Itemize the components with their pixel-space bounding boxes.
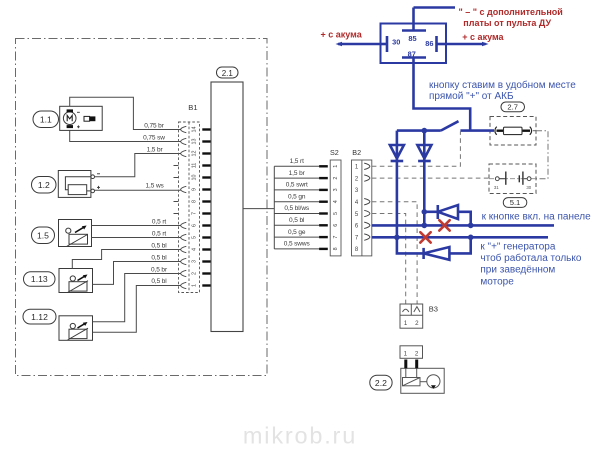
svg-text:1: 1 (333, 165, 339, 168)
svg-text:8: 8 (333, 247, 339, 250)
svg-text:85: 85 (408, 34, 416, 43)
svg-text:2.2: 2.2 (375, 378, 387, 388)
svg-text:+ с акума: + с акума (462, 32, 504, 42)
svg-text:0,5 bl: 0,5 bl (151, 278, 167, 285)
svg-text:7: 7 (192, 212, 198, 215)
svg-text:1: 1 (404, 320, 408, 327)
svg-text:платы от пульта ДУ: платы от пульта ДУ (463, 18, 551, 28)
svg-text:0,75 br: 0,75 br (144, 122, 164, 129)
svg-text:B3: B3 (429, 305, 438, 314)
svg-text:при заведённом: при заведённом (480, 265, 555, 276)
svg-text:0,5 ge: 0,5 ge (288, 229, 306, 236)
svg-text:2: 2 (192, 272, 198, 275)
svg-text:0,5 swws: 0,5 swws (284, 241, 311, 248)
svg-text:7: 7 (333, 236, 339, 239)
svg-text:2: 2 (333, 177, 339, 180)
svg-text:1: 1 (192, 284, 198, 287)
svg-text:1.12: 1.12 (31, 312, 48, 322)
svg-text:7: 7 (355, 235, 359, 241)
svg-text:87: 87 (408, 50, 416, 59)
svg-text:2.1: 2.1 (222, 69, 234, 78)
svg-text:6: 6 (192, 224, 198, 227)
svg-text:3: 3 (192, 260, 198, 263)
svg-text:B1: B1 (188, 103, 197, 112)
svg-text:0,5 rt: 0,5 rt (152, 219, 167, 226)
svg-text:1: 1 (355, 165, 359, 171)
svg-text:6: 6 (355, 224, 359, 230)
svg-text:31: 31 (494, 185, 499, 190)
svg-text:1.13: 1.13 (31, 274, 48, 284)
svg-text:86: 86 (425, 39, 433, 48)
svg-text:2: 2 (415, 350, 419, 357)
svg-text:прямой "+" от АКБ: прямой "+" от АКБ (429, 91, 514, 102)
svg-text:2.7: 2.7 (507, 103, 518, 112)
svg-text:" – " с дополнительной: " – " с дополнительной (459, 7, 563, 17)
svg-text:1,5 br: 1,5 br (289, 170, 306, 177)
svg-text:1.2: 1.2 (38, 180, 50, 190)
svg-text:0,75 sw: 0,75 sw (143, 135, 165, 142)
svg-text:к "+" генератора: к "+" генератора (480, 242, 555, 253)
svg-text:2: 2 (355, 176, 359, 182)
svg-text:30: 30 (526, 185, 531, 190)
svg-text:13: 13 (192, 139, 198, 145)
svg-text:0,5 rt: 0,5 rt (152, 231, 167, 238)
svg-text:5: 5 (355, 212, 359, 218)
svg-text:1.1: 1.1 (40, 114, 52, 124)
svg-text:5.1: 5.1 (510, 198, 521, 207)
svg-text:1,5 ws: 1,5 ws (146, 183, 165, 190)
svg-text:к кнопке вкл. на панеле: к кнопке вкл. на панеле (482, 212, 591, 223)
svg-text:4: 4 (355, 200, 359, 206)
svg-text:4: 4 (192, 248, 198, 251)
svg-text:8: 8 (355, 247, 359, 253)
svg-text:14: 14 (192, 127, 198, 133)
svg-text:1.5: 1.5 (37, 230, 49, 240)
svg-text:1,5 rt: 1,5 rt (290, 158, 305, 165)
svg-text:3: 3 (355, 188, 359, 194)
svg-text:2: 2 (415, 320, 419, 327)
svg-text:+ с акума: + с акума (321, 30, 363, 40)
svg-text:8: 8 (192, 200, 198, 203)
svg-text:0,5 bl/ws: 0,5 bl/ws (284, 205, 310, 212)
svg-text:0,5 swrt: 0,5 swrt (286, 182, 308, 189)
svg-text:S2: S2 (330, 148, 339, 157)
svg-text:моторе: моторе (480, 277, 514, 288)
svg-text:5: 5 (192, 236, 198, 239)
svg-text:0,5 bl: 0,5 bl (151, 243, 167, 250)
svg-text:4: 4 (333, 200, 339, 203)
svg-text:3: 3 (333, 188, 339, 191)
svg-text:9: 9 (192, 188, 198, 191)
svg-text:mikrob.ru: mikrob.ru (243, 423, 357, 449)
svg-text:11: 11 (192, 163, 198, 169)
svg-text:10: 10 (192, 175, 198, 181)
svg-text:0,5 bl: 0,5 bl (151, 255, 167, 262)
svg-text:12: 12 (192, 151, 198, 157)
svg-text:0,5 bl: 0,5 bl (289, 217, 305, 224)
svg-text:6: 6 (333, 224, 339, 227)
svg-text:0,5 gn: 0,5 gn (288, 193, 306, 200)
svg-text:30: 30 (392, 38, 400, 47)
svg-text:5: 5 (333, 212, 339, 215)
svg-text:B2: B2 (352, 148, 361, 157)
svg-text:кнопку ставим в удобном месте: кнопку ставим в удобном месте (429, 79, 576, 91)
svg-text:1,5 br: 1,5 br (147, 147, 164, 154)
svg-text:чтоб работала только: чтоб работала только (480, 252, 581, 264)
svg-text:0,5 br: 0,5 br (151, 267, 168, 274)
svg-text:1: 1 (404, 350, 408, 357)
